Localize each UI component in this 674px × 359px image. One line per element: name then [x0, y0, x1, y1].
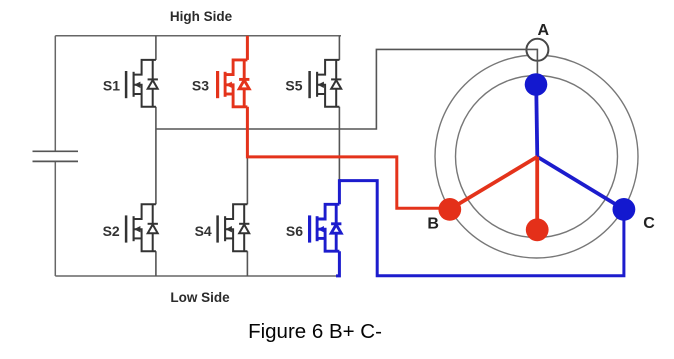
transistor S3 (active, red) — [218, 60, 250, 107]
wire: leg A bottom (S2 source to low rail) — [155, 251, 157, 276]
wire: leg A top (rail to S1 drain) — [155, 36, 157, 60]
svg-text:High Side: High Side — [170, 9, 233, 24]
svg-text:S6: S6 — [286, 223, 303, 239]
node A terminal (open circle on stator) — [526, 39, 548, 61]
svg-text:S5: S5 — [285, 78, 302, 94]
wire: blue active path phase C node to motor terminal C — [339, 181, 624, 276]
node C terminal (blue dot) — [613, 198, 636, 221]
winding rotor pointer (red spoke, center to bottom) — [535, 157, 539, 230]
motor stator outer circle — [435, 55, 638, 258]
wire: phase A to motor terminal A — [156, 49, 538, 129]
transistor S5 — [310, 60, 342, 107]
wire: blue S6 source to low rail corner — [336, 251, 339, 276]
wire: top rail (high side bus) — [55, 35, 341, 37]
svg-text:Figure 6 B+ C-: Figure 6 B+ C- — [248, 320, 382, 343]
node: blue dot below terminal A — [525, 73, 548, 96]
wire: leg B bottom (S4 source to low rail) — [246, 251, 248, 276]
transistor S4 — [218, 204, 250, 251]
wire: leg C middle (S5 source to phase C node) — [338, 107, 340, 181]
wire: bottom rail (low side bus) — [55, 275, 336, 277]
winding A (blue spoke, center to top) — [536, 85, 537, 158]
wire: red active path S3 source to motor terminal B — [247, 107, 448, 208]
transistor S6 (active, blue) — [310, 204, 342, 251]
capacitor — [33, 151, 79, 161]
transistor S2 — [126, 204, 158, 251]
svg-text:S2: S2 — [103, 223, 120, 239]
node: red dot at bottom of rotor — [526, 218, 549, 241]
wire: leg A middle (S1 source to S2 drain, phase A node) — [155, 107, 157, 205]
wire: left bus vertical (battery/cap branch) — [54, 36, 56, 276]
svg-text:A: A — [538, 22, 550, 39]
svg-text:Low Side: Low Side — [170, 290, 230, 305]
svg-text:S1: S1 — [103, 78, 120, 94]
wire: red active path S3 drain from top rail — [246, 36, 249, 60]
motor stator inner circle — [456, 76, 618, 238]
node B terminal (red dot) — [438, 198, 461, 221]
svg-text:B: B — [427, 216, 439, 233]
svg-text:S4: S4 — [195, 223, 212, 239]
svg-text:C: C — [643, 215, 655, 232]
winding B (red spoke, center to B) — [450, 157, 538, 210]
svg-text:S3: S3 — [192, 78, 209, 94]
wire: leg C top (rail to S5 drain) — [338, 36, 340, 60]
winding C (blue spoke, center to C) — [537, 157, 624, 210]
transistor S1 — [126, 60, 158, 107]
wire: leg B middle black (phase B node to S4 drain) — [246, 157, 248, 204]
wire: blue S6 drain connector — [338, 179, 341, 204]
